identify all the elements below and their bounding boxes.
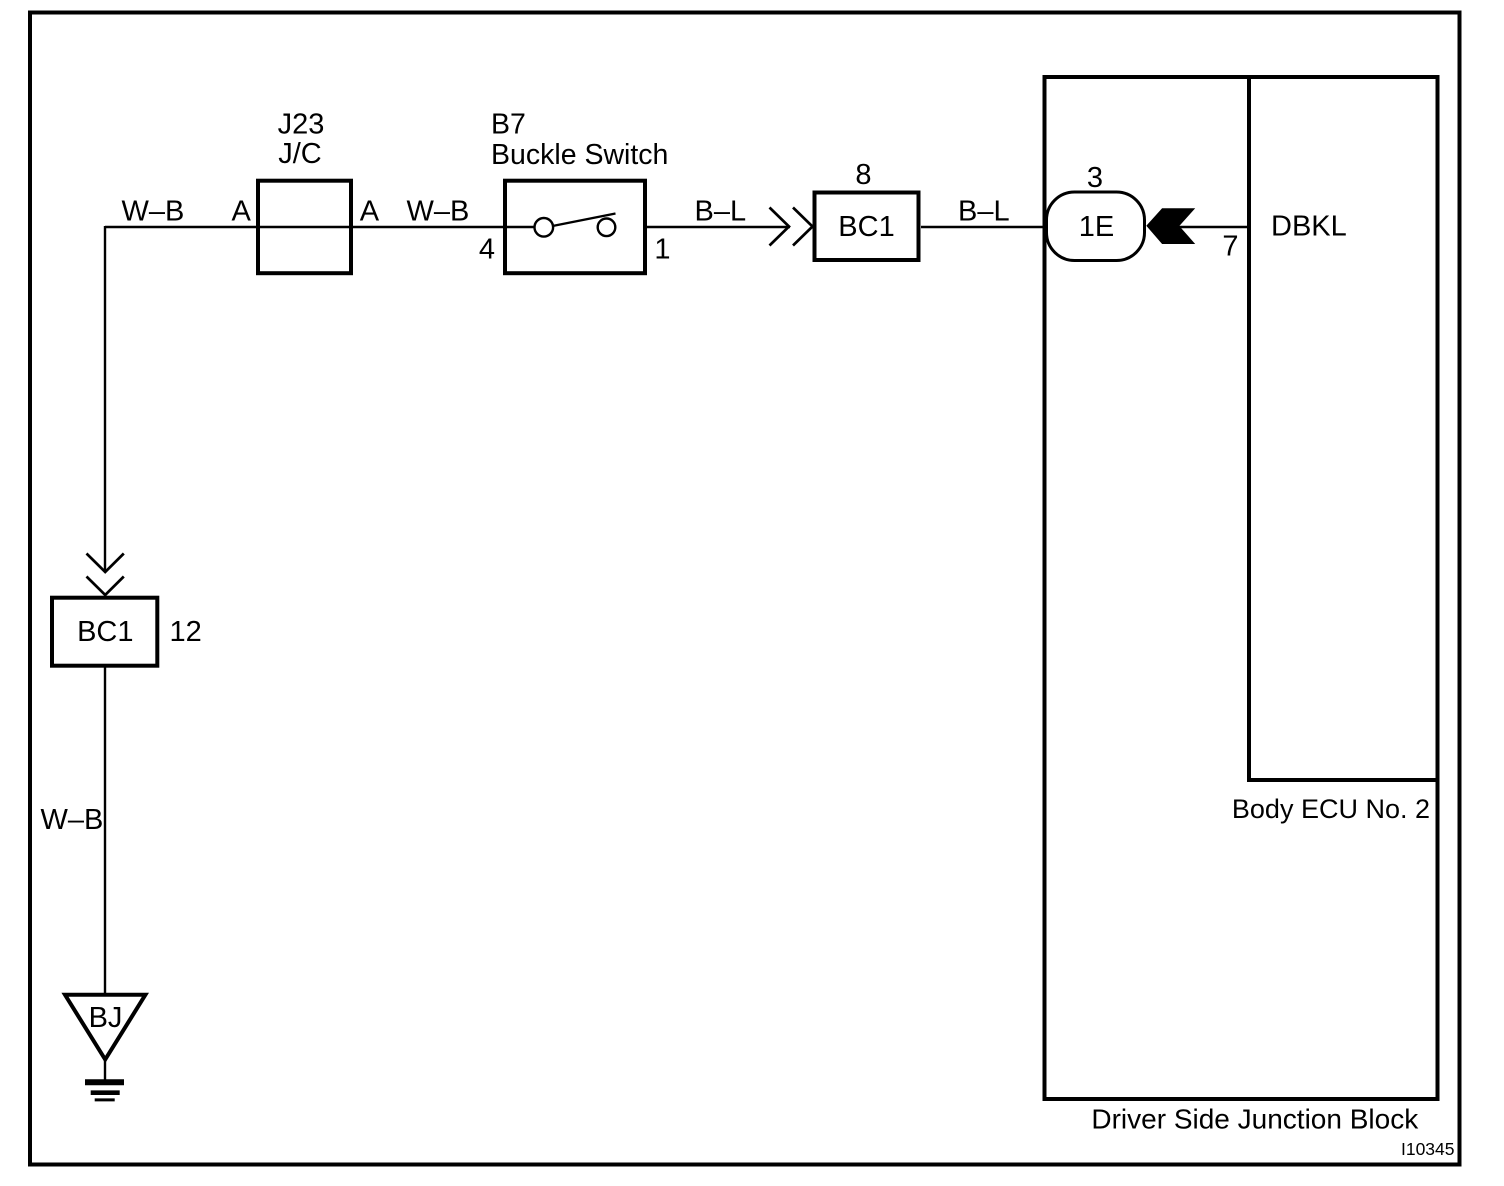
wire B-L from BC1 to junction block connector 1E (921, 226, 1046, 228)
svg-text:BJ: BJ (89, 1002, 123, 1034)
svg-text:1E: 1E (1079, 211, 1114, 243)
svg-text:4: 4 (479, 234, 495, 266)
svg-text:Buckle Switch: Buckle Switch (491, 139, 668, 171)
wire stub BJ apex to ground (104, 1059, 106, 1081)
svg-text:I10345: I10345 (1401, 1139, 1455, 1159)
switch lever (553, 214, 616, 227)
svg-text:8: 8 (855, 159, 871, 191)
ground point BJ triangle (65, 995, 145, 1060)
svg-text:B–L: B–L (958, 196, 1010, 228)
buckle switch B7 box (505, 181, 645, 274)
svg-text:7: 7 (1222, 231, 1238, 263)
svg-text:1: 1 (654, 234, 670, 266)
svg-text:W–B: W–B (41, 804, 104, 836)
svg-text:BC1: BC1 (838, 211, 894, 243)
ground symbol bars (85, 1082, 124, 1100)
svg-text:3: 3 (1087, 162, 1103, 194)
svg-text:W–B: W–B (407, 196, 470, 228)
wire W-B from connector BC1 pin 12 down to BJ (104, 667, 106, 995)
connector BC1 box (pin 8) (815, 193, 919, 261)
switch contact left circle (535, 218, 554, 237)
switch wire inside B7 (505, 226, 534, 228)
svg-text:12: 12 (170, 616, 202, 648)
body ECU No.2 inner box (1249, 77, 1438, 780)
svg-text:Body ECU No. 2: Body ECU No. 2 (1232, 794, 1430, 824)
junction block connector 1E oval (1047, 192, 1145, 261)
svg-text:B7: B7 (491, 109, 526, 141)
solid direction arrow toward 1E (1146, 208, 1195, 244)
connector chevron arrows on W-B wire down (87, 554, 124, 596)
svg-text:A: A (232, 196, 252, 228)
wire B-L from buckle switch to connector BC1 pin 8 (616, 226, 790, 228)
junction connector J23 J/C box (258, 181, 351, 274)
svg-text:J/C: J/C (278, 138, 322, 170)
svg-text:J23: J23 (278, 109, 325, 141)
svg-text:W–B: W–B (122, 196, 185, 228)
driver side junction block box (1045, 77, 1438, 1099)
wire W-B horizontal from left branch corner through J23 (105, 226, 534, 228)
svg-text:DBKL: DBKL (1271, 211, 1347, 243)
wire DBKL from arrow to Body ECU pin 7 (1178, 226, 1249, 228)
svg-text:BC1: BC1 (77, 616, 133, 648)
connector BC1 box (pin 12) (52, 598, 157, 666)
svg-text:A: A (360, 196, 380, 228)
connector chevron arrows on B-L wire (770, 208, 813, 246)
svg-text:Driver Side Junction Block: Driver Side Junction Block (1091, 1104, 1419, 1135)
svg-text:B–L: B–L (695, 196, 747, 228)
switch contact right circle (598, 219, 616, 237)
wire W-B vertical down-left branch (104, 226, 106, 572)
